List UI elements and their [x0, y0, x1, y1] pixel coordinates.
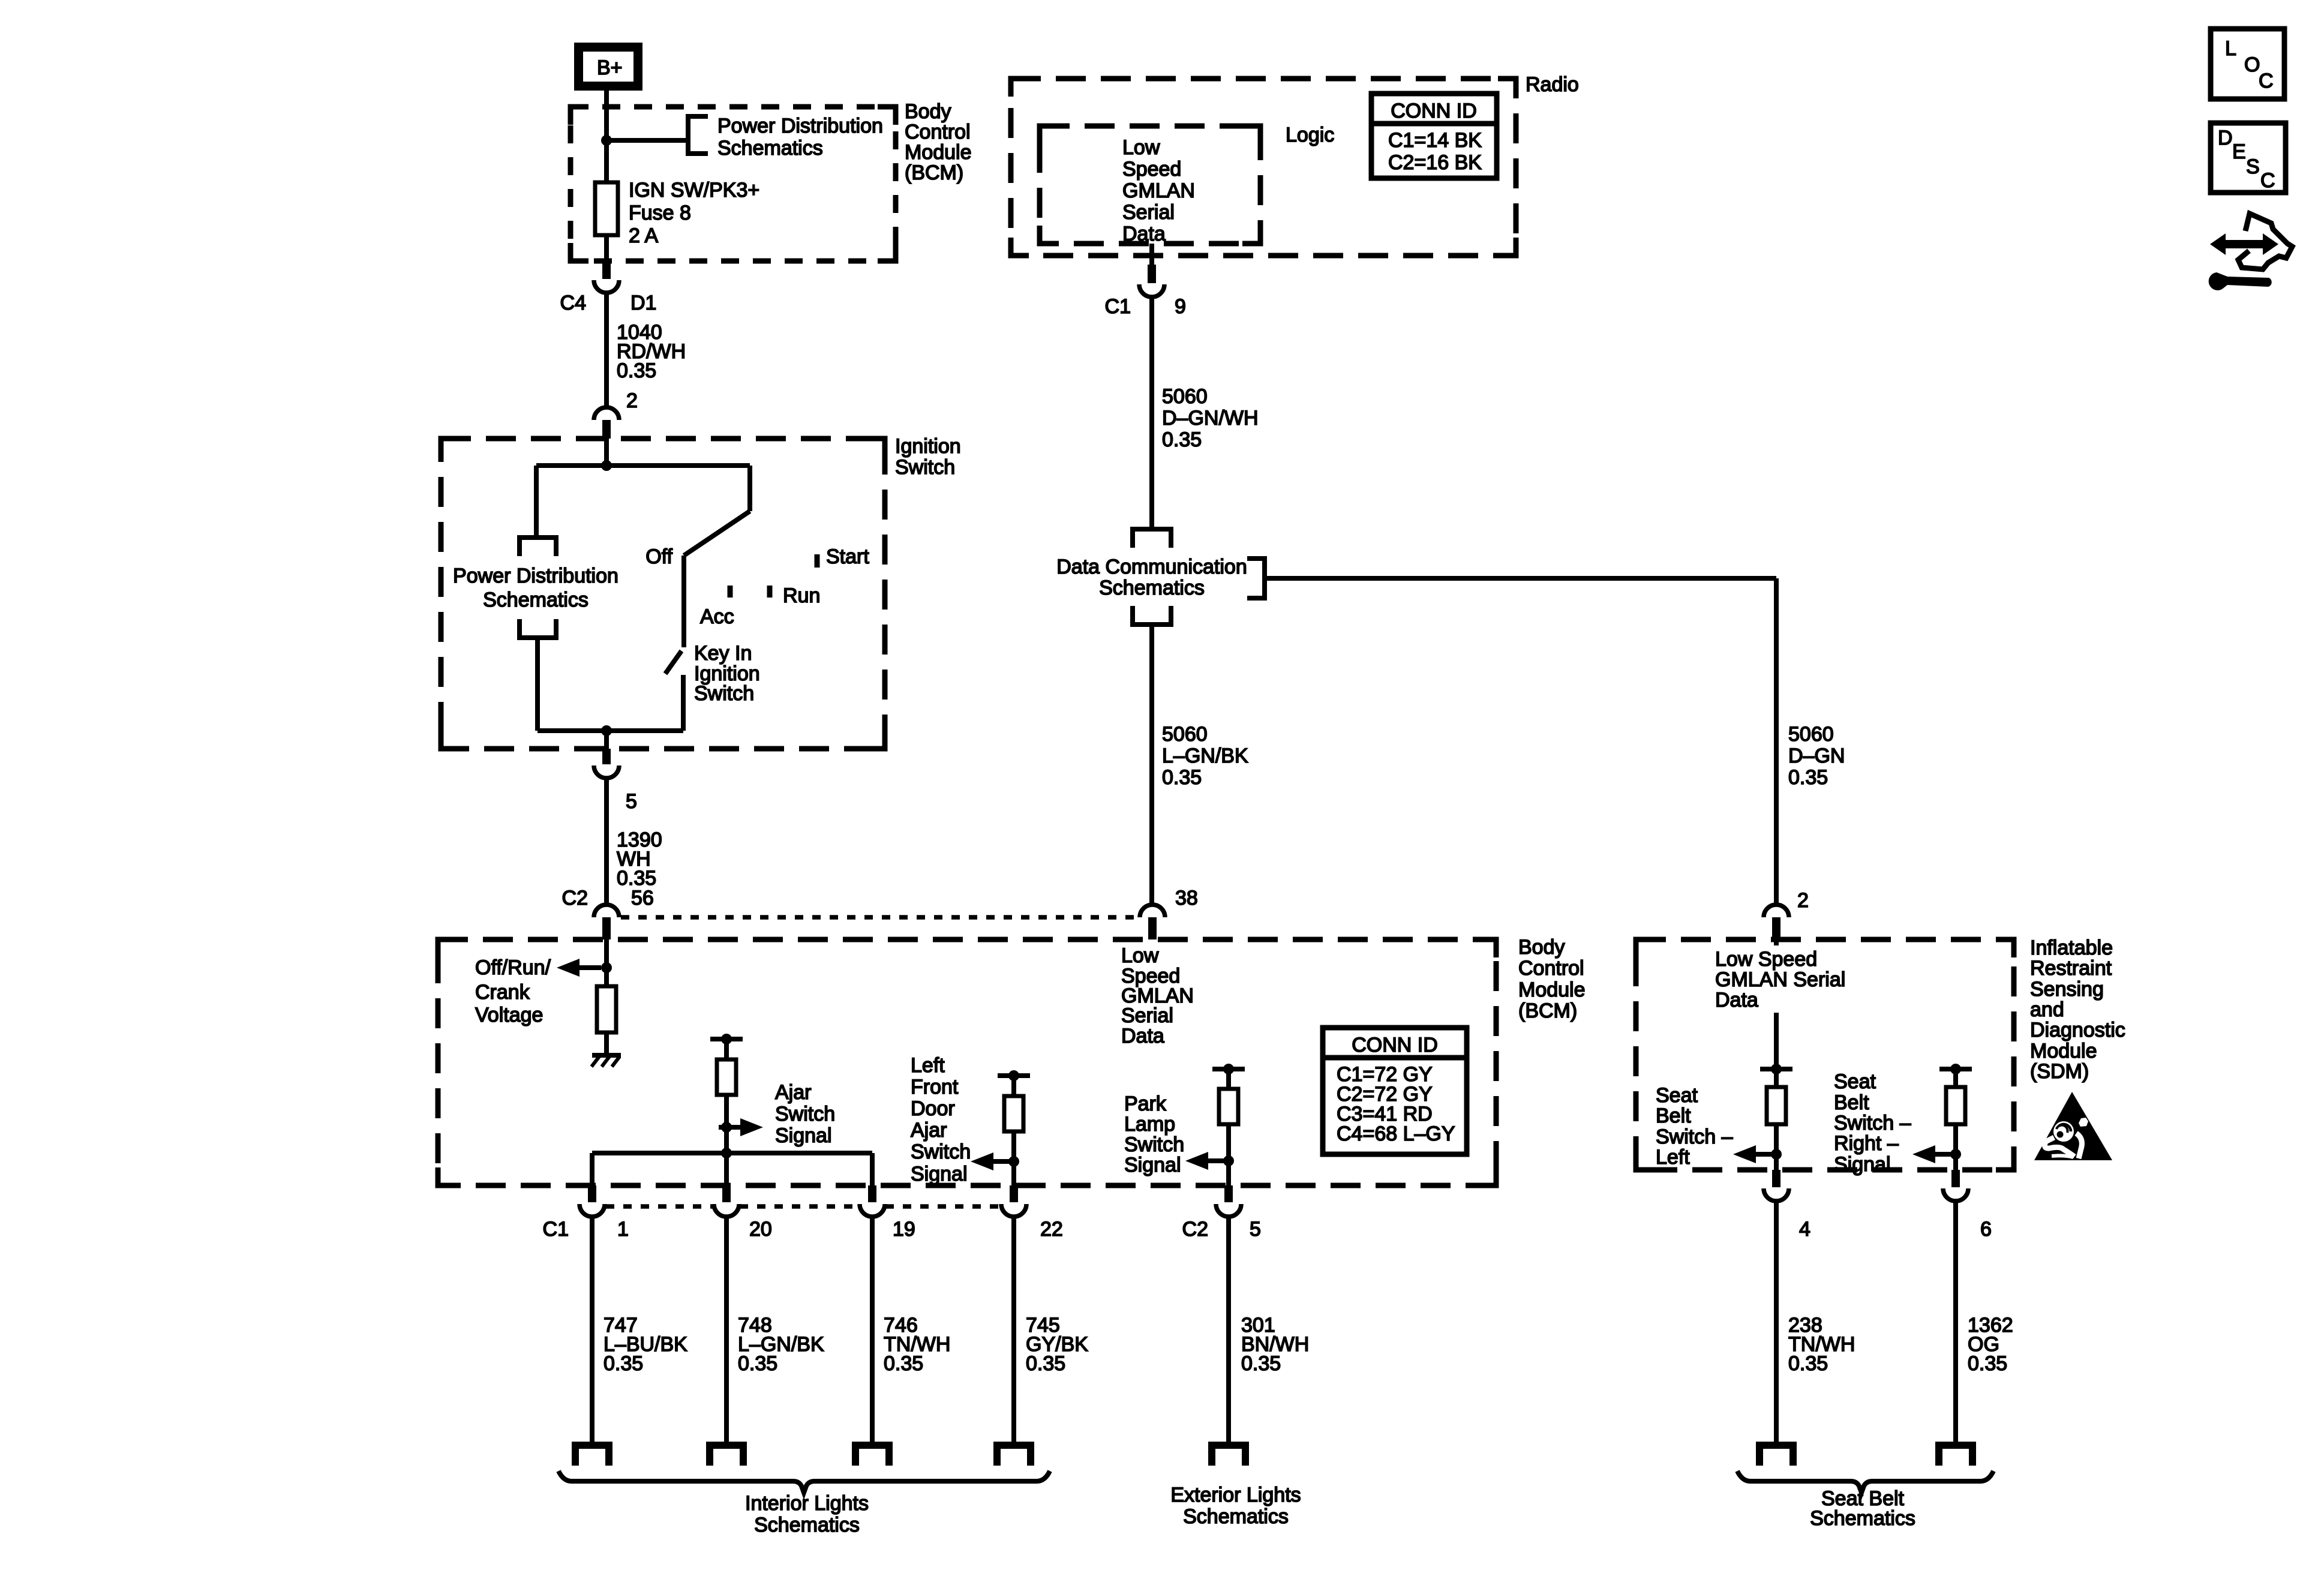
svg-text:0.35: 0.35	[617, 359, 656, 382]
svg-text:Restraint: Restraint	[2030, 957, 2112, 980]
svg-text:Signal: Signal	[775, 1124, 832, 1147]
svg-text:Fuse 8: Fuse 8	[629, 202, 691, 224]
svg-text:Control: Control	[1518, 957, 1584, 980]
svg-text:Inflatable: Inflatable	[2030, 936, 2113, 959]
svg-text:B+: B+	[597, 56, 623, 79]
svg-text:D–GN: D–GN	[1788, 745, 1845, 767]
svg-text:Speed: Speed	[1122, 158, 1181, 181]
svg-text:Seat: Seat	[1834, 1070, 1876, 1093]
svg-text:0.35: 0.35	[1788, 766, 1828, 789]
svg-text:0.35: 0.35	[738, 1352, 777, 1375]
svg-text:C2=16 BK: C2=16 BK	[1388, 151, 1482, 174]
svg-text:L–GN/BK: L–GN/BK	[1162, 745, 1248, 767]
svg-text:Front: Front	[911, 1076, 959, 1098]
svg-text:Data Communication: Data Communication	[1056, 556, 1247, 578]
svg-text:Switch: Switch	[694, 682, 754, 705]
svg-text:Power Distribution: Power Distribution	[453, 565, 618, 587]
svg-text:C2: C2	[562, 887, 588, 909]
svg-text:GMLAN Serial: GMLAN Serial	[1715, 968, 1845, 991]
svg-text:Schematics: Schematics	[1183, 1505, 1289, 1528]
svg-text:Body: Body	[1518, 936, 1565, 959]
svg-text:Schematics: Schematics	[1810, 1507, 1915, 1530]
svg-text:Control: Control	[905, 121, 971, 143]
svg-text:(BCM): (BCM)	[905, 161, 963, 184]
svg-text:CONN ID: CONN ID	[1352, 1034, 1438, 1056]
svg-text:Lamp: Lamp	[1124, 1113, 1175, 1136]
svg-text:0.35: 0.35	[1162, 766, 1202, 789]
svg-text:0.35: 0.35	[603, 1352, 643, 1375]
svg-text:Logic: Logic	[1286, 124, 1334, 146]
svg-text:C: C	[2259, 70, 2274, 92]
svg-text:CONN ID: CONN ID	[1391, 100, 1477, 122]
svg-text:Belt: Belt	[1834, 1091, 1869, 1114]
svg-text:Low: Low	[1122, 136, 1160, 159]
svg-text:Crank: Crank	[475, 981, 530, 1004]
svg-text:Ajar: Ajar	[775, 1081, 811, 1104]
svg-text:Schematics: Schematics	[717, 137, 823, 160]
svg-text:Off: Off	[645, 545, 672, 568]
svg-text:Switch: Switch	[775, 1103, 835, 1125]
svg-text:Schematics: Schematics	[754, 1514, 860, 1536]
svg-text:5060: 5060	[1162, 385, 1208, 408]
svg-text:Right –: Right –	[1834, 1132, 1899, 1155]
svg-text:Module: Module	[2030, 1040, 2097, 1062]
svg-text:O: O	[2244, 53, 2260, 76]
svg-text:Serial: Serial	[1122, 201, 1175, 224]
svg-text:Switch: Switch	[1124, 1133, 1184, 1156]
svg-text:Key In: Key In	[694, 642, 752, 665]
svg-text:Ajar: Ajar	[911, 1119, 947, 1142]
svg-text:Data: Data	[1121, 1025, 1164, 1047]
svg-text:Module: Module	[905, 141, 972, 164]
svg-text:Schematics: Schematics	[1099, 577, 1205, 599]
svg-text:4: 4	[1799, 1218, 1810, 1241]
svg-text:5060: 5060	[1162, 723, 1208, 746]
svg-text:Low Speed: Low Speed	[1715, 948, 1817, 971]
svg-text:Switch –: Switch –	[1656, 1125, 1733, 1148]
svg-text:Voltage: Voltage	[475, 1004, 543, 1026]
svg-text:and: and	[2030, 998, 2064, 1021]
svg-text:Radio: Radio	[1526, 73, 1579, 96]
svg-text:2 A: 2 A	[629, 224, 658, 247]
svg-text:S: S	[2246, 155, 2260, 178]
svg-text:19: 19	[893, 1218, 915, 1241]
svg-text:GMLAN: GMLAN	[1122, 179, 1195, 202]
svg-text:Belt: Belt	[1656, 1104, 1691, 1127]
svg-text:C1=14 BK: C1=14 BK	[1388, 129, 1482, 152]
svg-text:(SDM): (SDM)	[2030, 1060, 2089, 1083]
svg-text:2: 2	[626, 389, 638, 412]
svg-text:D–GN/WH: D–GN/WH	[1162, 407, 1259, 430]
svg-text:5: 5	[626, 790, 637, 813]
svg-text:22: 22	[1040, 1218, 1063, 1241]
svg-text:0.35: 0.35	[1968, 1352, 2007, 1375]
svg-text:Diagnostic: Diagnostic	[2030, 1019, 2125, 1041]
svg-text:1: 1	[617, 1218, 629, 1241]
svg-text:C2: C2	[1182, 1218, 1208, 1241]
svg-text:20: 20	[749, 1218, 772, 1241]
svg-text:C4: C4	[560, 292, 586, 314]
svg-text:C4=68 L–GY: C4=68 L–GY	[1337, 1122, 1455, 1145]
svg-text:Door: Door	[911, 1097, 955, 1120]
svg-text:L: L	[2225, 37, 2236, 60]
svg-text:6: 6	[1980, 1218, 1992, 1241]
svg-text:IGN SW/PK3+: IGN SW/PK3+	[629, 179, 759, 202]
svg-text:Module: Module	[1518, 978, 1586, 1001]
svg-text:Signal: Signal	[911, 1163, 968, 1185]
svg-text:Acc: Acc	[700, 605, 734, 628]
svg-text:Interior Lights: Interior Lights	[745, 1492, 869, 1515]
svg-text:Off/Run/: Off/Run/	[475, 956, 551, 979]
svg-text:Switch –: Switch –	[1834, 1112, 1911, 1134]
svg-text:Data: Data	[1122, 223, 1166, 245]
svg-text:Exterior Lights: Exterior Lights	[1170, 1484, 1301, 1506]
svg-text:Signal: Signal	[1834, 1153, 1891, 1176]
svg-text:Left: Left	[911, 1054, 945, 1077]
svg-text:Power Distribution: Power Distribution	[717, 115, 883, 137]
svg-text:Seat: Seat	[1656, 1084, 1698, 1107]
svg-text:Sensing: Sensing	[2030, 978, 2104, 1001]
svg-text:Data: Data	[1715, 989, 1758, 1011]
svg-text:C1: C1	[543, 1218, 569, 1241]
svg-text:Park: Park	[1124, 1092, 1167, 1115]
svg-text:D: D	[2218, 127, 2233, 149]
svg-text:56: 56	[631, 887, 654, 909]
svg-text:Low: Low	[1121, 944, 1159, 967]
svg-text:Body: Body	[905, 100, 951, 123]
svg-text:9: 9	[1175, 295, 1186, 318]
svg-text:38: 38	[1175, 887, 1198, 909]
svg-text:Ignition: Ignition	[895, 435, 961, 458]
svg-text:(BCM): (BCM)	[1518, 999, 1577, 1022]
svg-text:5060: 5060	[1788, 723, 1834, 746]
svg-text:Serial: Serial	[1121, 1004, 1173, 1027]
svg-text:0.35: 0.35	[1162, 428, 1202, 451]
svg-text:Start: Start	[826, 545, 869, 568]
svg-text:D1: D1	[630, 292, 656, 314]
svg-text:E: E	[2232, 140, 2246, 163]
svg-text:Left: Left	[1656, 1146, 1690, 1169]
svg-text:Switch: Switch	[911, 1140, 971, 1163]
svg-text:5: 5	[1250, 1218, 1261, 1241]
svg-text:0.35: 0.35	[884, 1352, 923, 1375]
svg-text:0.35: 0.35	[1241, 1352, 1281, 1375]
svg-text:Schematics: Schematics	[483, 589, 588, 611]
svg-text:Signal: Signal	[1124, 1154, 1181, 1176]
svg-text:2: 2	[1797, 889, 1809, 912]
svg-text:0.35: 0.35	[1788, 1352, 1828, 1375]
svg-text:C: C	[2260, 169, 2275, 192]
svg-text:C1: C1	[1105, 295, 1131, 318]
svg-text:0.35: 0.35	[1026, 1352, 1065, 1375]
svg-text:Run: Run	[783, 584, 820, 607]
svg-text:Switch: Switch	[895, 456, 955, 479]
